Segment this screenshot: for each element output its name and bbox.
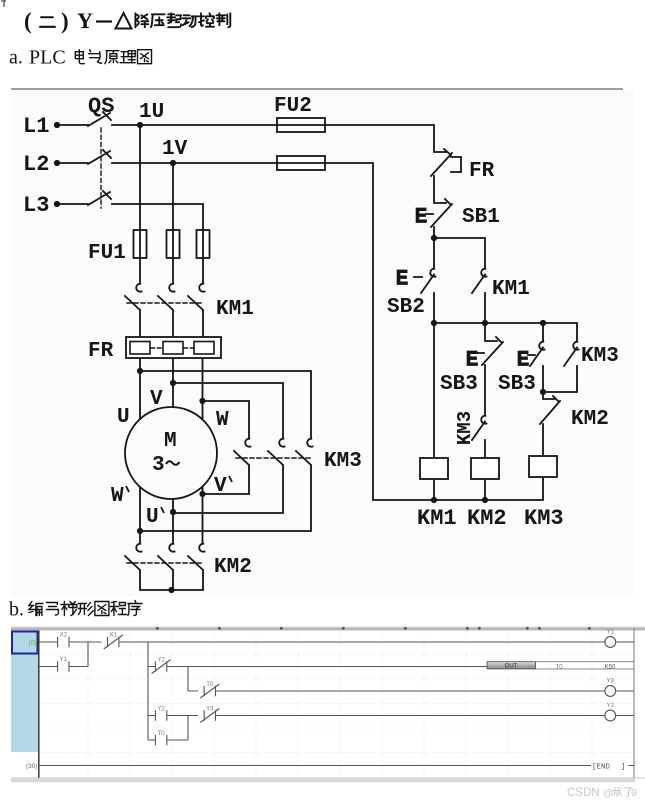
svg-text:X2: X2 <box>60 632 68 638</box>
svg-text:KM2: KM2 <box>214 556 252 579</box>
svg-text:SB3: SB3 <box>440 373 478 396</box>
svg-text:X1: X1 <box>110 632 118 638</box>
svg-text:W: W <box>111 485 124 508</box>
svg-text:KM3: KM3 <box>524 506 564 531</box>
svg-text:V: V <box>214 475 227 498</box>
svg-text:FR: FR <box>88 340 114 363</box>
svg-text:T0: T0 <box>158 731 166 737</box>
svg-text:U: U <box>117 406 130 429</box>
svg-text:Y2: Y2 <box>157 657 165 663</box>
svg-text:SB3: SB3 <box>498 373 536 396</box>
svg-text:FU1: FU1 <box>88 242 126 265</box>
svg-text:@: @ <box>603 788 614 800</box>
svg-text:SB2: SB2 <box>387 296 425 319</box>
svg-text:9: 9 <box>631 787 637 799</box>
svg-text:(: ( <box>24 9 32 34</box>
svg-text:KM3: KM3 <box>324 450 362 473</box>
svg-text:Y2: Y2 <box>607 703 615 709</box>
svg-text:FR: FR <box>469 160 495 183</box>
svg-text:KM2: KM2 <box>571 408 609 431</box>
svg-text:KM3: KM3 <box>581 345 619 368</box>
svg-text:3: 3 <box>152 454 165 477</box>
svg-text:E: E <box>517 349 529 372</box>
svg-text:M: M <box>164 430 177 453</box>
svg-text:W: W <box>216 409 229 432</box>
svg-text:L1: L1 <box>23 114 49 139</box>
svg-text:Y1: Y1 <box>60 657 68 663</box>
svg-text:V: V <box>150 388 163 411</box>
svg-text:Y2: Y2 <box>157 706 165 712</box>
svg-text:Y3: Y3 <box>206 706 214 712</box>
svg-text:]: ] <box>621 763 626 771</box>
svg-text:Y3: Y3 <box>607 678 615 684</box>
svg-text:a.: a. <box>9 47 23 69</box>
svg-text:KM2: KM2 <box>467 506 507 531</box>
svg-text:): ) <box>61 9 69 34</box>
svg-text:KM1: KM1 <box>492 278 530 301</box>
svg-text:FU2: FU2 <box>274 95 312 118</box>
svg-text:1V: 1V <box>162 138 188 161</box>
svg-text:(30): (30) <box>26 763 38 770</box>
svg-text:T0: T0 <box>206 682 214 688</box>
svg-text:[END: [END <box>592 763 611 771</box>
svg-text:L3: L3 <box>23 193 49 218</box>
svg-text:Y1: Y1 <box>607 629 615 635</box>
svg-text:b.: b. <box>9 599 24 621</box>
svg-text:SB1: SB1 <box>462 206 500 229</box>
svg-text:KM1: KM1 <box>417 506 457 531</box>
svg-text:OUT: OUT <box>505 663 518 669</box>
svg-text:L2: L2 <box>23 152 49 177</box>
svg-text:Y: Y <box>77 8 93 33</box>
svg-text:KM1: KM1 <box>216 298 254 321</box>
svg-text:KM3: KM3 <box>454 411 476 445</box>
svg-text:QS: QS <box>88 94 114 119</box>
svg-text:(0): (0) <box>29 640 37 647</box>
svg-text:E: E <box>415 206 427 229</box>
svg-text:U: U <box>146 506 159 529</box>
svg-text:E: E <box>396 268 408 291</box>
svg-text:PLC: PLC <box>29 47 66 69</box>
svg-text:K50: K50 <box>605 664 616 670</box>
svg-text:T0: T0 <box>555 664 563 670</box>
svg-text:1U: 1U <box>139 101 164 124</box>
svg-text:CSDN: CSDN <box>567 787 600 799</box>
